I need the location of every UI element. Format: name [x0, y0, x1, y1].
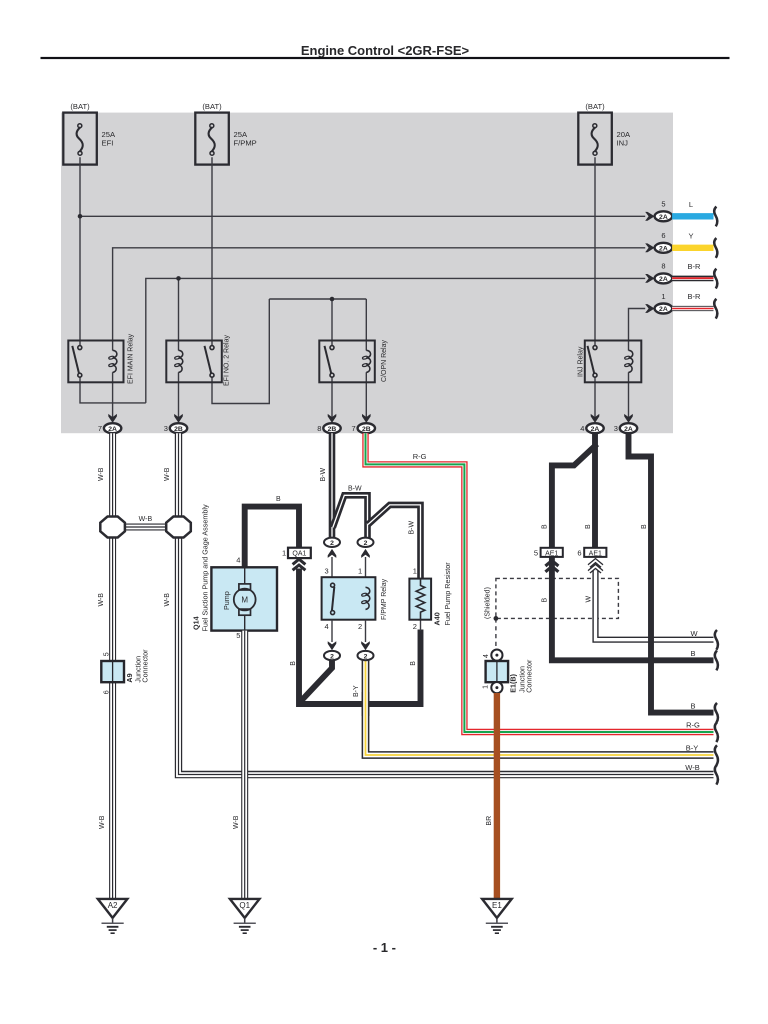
svg-text:(BAT): (BAT) — [202, 102, 222, 111]
svg-text:F/PMP: F/PMP — [234, 139, 257, 148]
svg-text:6: 6 — [104, 690, 111, 694]
svg-text:Engine Control <2GR-FSE>: Engine Control <2GR-FSE> — [301, 43, 470, 58]
svg-text:4: 4 — [483, 654, 490, 658]
svg-text:M: M — [241, 596, 248, 605]
svg-text:F/PMP Relay: F/PMP Relay — [381, 578, 388, 620]
svg-text:(BAT): (BAT) — [70, 102, 90, 111]
svg-text:W-B: W-B — [164, 467, 171, 481]
svg-text:2: 2 — [413, 622, 417, 631]
connector AE1 pin 6 — [577, 548, 606, 572]
wire B-W branch to fuel pump resistor pin1 — [368, 505, 421, 579]
wire C/OPN relay coil riser — [365, 299, 367, 351]
fuse INJ 20A — [578, 102, 631, 165]
wire C/OPN relay feed horizontal — [269, 298, 366, 300]
wire W-B octagon bridge — [124, 516, 167, 527]
connector AE1 pin 5 — [534, 548, 563, 572]
svg-text:Y: Y — [688, 232, 693, 241]
svg-text:4: 4 — [325, 622, 329, 631]
svg-text:1: 1 — [483, 685, 490, 689]
title underline rule — [41, 57, 730, 59]
svg-text:W-B: W-B — [139, 516, 153, 523]
ground E1 — [482, 899, 512, 933]
wire B branch from F/PMP relay pin4 oval — [301, 660, 333, 702]
junction connector E1(B) — [483, 650, 534, 694]
svg-text:QA1: QA1 — [292, 551, 306, 558]
terminal 2A pin 5 with L wire — [645, 200, 717, 227]
svg-text:6: 6 — [661, 231, 665, 240]
svg-text:W-B: W-B — [98, 467, 105, 481]
wire B from 2A pin4 to AE1 pin6 — [592, 433, 598, 548]
shield drain dashed wire to E1(B) — [495, 618, 497, 649]
svg-text:EFI: EFI — [102, 139, 114, 148]
wire W from AE1 pin6 to harness break — [596, 570, 718, 649]
svg-text:Fuel Pump Resistor: Fuel Pump Resistor — [443, 562, 452, 626]
wire B from 2A pin3 to harness break — [629, 433, 718, 723]
svg-text:B: B — [641, 524, 648, 529]
svg-text:2: 2 — [330, 653, 334, 660]
connector 2B pin 8 (C/OPN relay switch) — [317, 414, 340, 433]
svg-text:- 1 -: - 1 - — [373, 940, 396, 955]
svg-text:2B: 2B — [362, 426, 371, 433]
svg-text:E1: E1 — [492, 901, 502, 910]
svg-text:B-W: B-W — [348, 486, 362, 493]
svg-text:2: 2 — [358, 622, 362, 631]
terminal 2A pin 8 with B-R wire — [645, 262, 717, 289]
wire R-G from 2B pin7 to harness break — [366, 433, 718, 742]
wire W-B from 2B pin3 down and right to harness break — [179, 433, 714, 775]
svg-text:B-Y: B-Y — [353, 685, 360, 697]
wire W-B octagon to A9 — [109, 537, 116, 662]
svg-text:3: 3 — [325, 566, 329, 575]
svg-text:EFI MAIN Relay: EFI MAIN Relay — [127, 333, 134, 384]
wire terminal 8 feed horizontal — [146, 278, 645, 403]
wire C/OPN relay switch to connector 2B pin 8 — [331, 377, 333, 420]
fuel pump assembly Q14 — [192, 504, 277, 640]
relay INJ — [578, 341, 642, 383]
connector 2A pin 4 (INJ relay switch) — [580, 414, 603, 433]
connector oval 2 relay pin2 lower — [358, 620, 374, 661]
connector oval 2 relay pin1 upper — [358, 538, 374, 578]
svg-text:5: 5 — [104, 652, 111, 656]
wire EFI fuse to EFI MAIN relay switch — [79, 157, 81, 345]
wire F/PMP fuse to EFI NO.2 relay switch — [211, 157, 213, 345]
svg-text:W-B: W-B — [99, 815, 106, 829]
svg-text:INJ: INJ — [617, 139, 629, 148]
svg-text:2A: 2A — [659, 276, 668, 283]
svg-text:W-B: W-B — [164, 593, 171, 607]
wire INJ fuse to INJ relay switch — [594, 157, 596, 345]
junction dot C/OPN switch riser / feed line — [330, 297, 335, 302]
svg-text:2B: 2B — [174, 426, 183, 433]
junction connector A9 — [101, 649, 149, 694]
svg-text:C/OPN Relay: C/OPN Relay — [381, 339, 388, 382]
svg-text:1: 1 — [282, 549, 286, 558]
wire INJ relay coil to connector 2A pin 3 — [628, 372, 630, 420]
svg-text:B-R: B-R — [688, 292, 702, 301]
svg-text:2A: 2A — [108, 426, 117, 433]
svg-text:2A: 2A — [591, 426, 600, 433]
svg-text:(Shielded): (Shielded) — [485, 587, 492, 619]
wire B-W from 2B pin8 to relay pin3 — [320, 433, 332, 538]
svg-text:2A: 2A — [659, 214, 668, 221]
wire B branch to AE1 pin5 — [552, 444, 597, 548]
svg-text:W: W — [690, 629, 698, 638]
fuse F/PMP 25A — [195, 102, 256, 165]
terminal 2A pin 1 with B-R wire — [645, 292, 717, 319]
shield junction dot — [494, 616, 499, 621]
svg-text:7: 7 — [352, 424, 356, 433]
svg-text:E1(B): E1(B) — [508, 673, 517, 692]
svg-text:R-G: R-G — [413, 452, 427, 461]
connector QA1 — [282, 548, 311, 571]
svg-text:3: 3 — [164, 424, 168, 433]
svg-text:1: 1 — [413, 566, 417, 575]
svg-text:2B: 2B — [328, 426, 337, 433]
svg-text:7: 7 — [98, 424, 102, 433]
svg-text:2: 2 — [364, 540, 368, 547]
junction octagon A — [100, 517, 125, 538]
svg-text:INJ Relay: INJ Relay — [578, 346, 585, 377]
svg-text:EFI NO. 2 Relay: EFI NO. 2 Relay — [224, 335, 231, 386]
svg-text:AE1: AE1 — [545, 550, 558, 557]
wire INJ relay switch to connector 2A pin 4 — [594, 377, 596, 420]
wire C/OPN relay coil to connector 2B pin 7 — [365, 372, 367, 420]
svg-text:3: 3 — [614, 424, 618, 433]
wire B from AE1 pin5 to harness break — [552, 557, 718, 670]
ground A2 — [98, 899, 128, 933]
wire W-B from 2A pin7 to octagon junction — [109, 433, 116, 517]
connector 2B pin 3 (EFI NO.2 relay coil) — [164, 414, 187, 433]
connector oval 2 relay pin3 upper — [324, 538, 340, 578]
svg-text:B: B — [410, 661, 417, 666]
ground Q1 — [230, 899, 260, 933]
svg-text:8: 8 — [317, 424, 321, 433]
wire terminal 1 feed from INJ relay coil — [629, 309, 646, 351]
svg-text:4: 4 — [236, 556, 240, 565]
svg-text:B: B — [541, 598, 548, 603]
svg-text:B-R: B-R — [688, 262, 702, 271]
relay EFI NO. 2 — [166, 335, 230, 386]
gray power-distribution background box — [61, 113, 673, 434]
wire W-B A9 to ground A2 — [109, 682, 116, 899]
svg-text:R-G: R-G — [686, 721, 700, 730]
wire EFI MAIN relay coil to connector 2A pin 7 — [112, 372, 114, 420]
fuel pump resistor A40 — [409, 562, 451, 631]
wire B-Y from F/PMP relay pin2 to harness break — [353, 660, 718, 765]
svg-text:B: B — [690, 649, 695, 658]
relay EFI MAIN — [68, 333, 134, 384]
svg-text:B-Y: B-Y — [686, 743, 699, 752]
shield dashed box around AE1 wires — [485, 578, 619, 649]
svg-text:Pump: Pump — [222, 591, 231, 610]
svg-text:AE1: AE1 — [589, 550, 602, 557]
connector 2A pin 3 (INJ relay coil) — [614, 414, 637, 433]
svg-text:W-B: W-B — [685, 763, 699, 772]
svg-text:B: B — [276, 496, 281, 503]
wire C/OPN relay switch riser — [331, 299, 333, 346]
svg-text:Connector: Connector — [524, 659, 533, 693]
svg-text:5: 5 — [236, 631, 240, 640]
junction dot EFI NO.2 coil / terminal 8 line — [176, 276, 181, 281]
connector 2B pin 7 (C/OPN relay coil) — [352, 414, 375, 433]
junction dot EFI fuse / terminal 5 line — [78, 214, 83, 219]
svg-text:Fuel Suction Pump and Gage Ass: Fuel Suction Pump and Gage Assembly — [200, 504, 209, 631]
svg-text:1: 1 — [661, 292, 665, 301]
svg-text:A2: A2 — [108, 901, 118, 910]
svg-text:2A: 2A — [659, 245, 668, 252]
wire terminal 6 feed from EFI MAIN relay coil — [113, 248, 646, 351]
svg-text:5: 5 — [534, 549, 538, 558]
svg-text:2: 2 — [364, 653, 368, 660]
svg-text:A40: A40 — [432, 612, 441, 625]
wire B pump pin4 to QA1 — [245, 507, 299, 568]
svg-text:Connector: Connector — [141, 649, 150, 683]
svg-text:W-B: W-B — [233, 815, 240, 829]
svg-text:2: 2 — [330, 540, 334, 547]
svg-text:B: B — [690, 701, 695, 710]
wire EFI NO.2 relay coil riser — [178, 278, 180, 350]
svg-text:Q14: Q14 — [192, 616, 201, 630]
svg-text:Q1: Q1 — [239, 901, 250, 910]
svg-text:B: B — [541, 524, 548, 529]
svg-text:1: 1 — [358, 566, 362, 575]
svg-text:B-W: B-W — [320, 468, 327, 482]
terminal 2A pin 6 with Y wire — [645, 231, 717, 258]
junction octagon B — [166, 517, 191, 538]
wire EFI NO.2 relay coil to connector 2B pin 3 — [178, 372, 180, 420]
harness break W-B line — [715, 765, 718, 785]
svg-text:8: 8 — [661, 262, 665, 271]
svg-text:W-B: W-B — [98, 593, 105, 607]
svg-text:B: B — [290, 661, 297, 666]
wire B-Y overlay at crossing — [362, 692, 370, 716]
wire terminal 5 feed horizontal — [80, 215, 645, 217]
svg-text:L: L — [689, 200, 693, 209]
svg-text:BR: BR — [486, 816, 493, 826]
relay C/OPN — [319, 339, 388, 382]
wire B QA1 down right and up to A40 pin2 — [299, 569, 421, 705]
fuse EFI 25A — [63, 102, 116, 165]
connector oval 2 relay pin4 lower — [324, 620, 340, 661]
relay F/PMP — [322, 577, 389, 620]
svg-text:4: 4 — [580, 424, 584, 433]
svg-text:5: 5 — [661, 200, 665, 209]
wire W-B pump pin5 to ground Q1 — [233, 631, 245, 899]
svg-text:B-W: B-W — [408, 521, 415, 535]
svg-text:B: B — [585, 524, 592, 529]
svg-text:6: 6 — [577, 549, 581, 558]
svg-text:2A: 2A — [624, 426, 633, 433]
wire EFI NO.2 relay switch output U-jog — [212, 299, 269, 404]
wire EFI MAIN relay switch output U-jog — [80, 377, 146, 403]
svg-text:(BAT): (BAT) — [585, 102, 605, 111]
wire B-W branch to relay pin1 — [333, 486, 368, 538]
svg-text:W: W — [586, 596, 593, 603]
svg-text:2A: 2A — [659, 306, 668, 313]
wire BR from E1(B) to ground E1 — [494, 693, 500, 899]
connector 2A pin 7 (EFI MAIN relay output) — [98, 414, 121, 433]
